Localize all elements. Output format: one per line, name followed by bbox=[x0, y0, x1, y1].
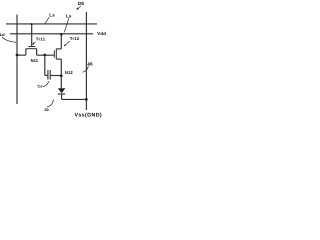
svg-text:Cs: Cs bbox=[37, 84, 42, 89]
label Ls leader (second) bbox=[64, 18, 69, 32]
svg-text:Ls: Ls bbox=[66, 14, 72, 19]
svg-text:DS: DS bbox=[78, 1, 84, 6]
svg-text:Vdd: Vdd bbox=[97, 31, 106, 36]
label Cs text bbox=[37, 84, 42, 89]
label Cs leader bbox=[43, 81, 49, 86]
node junction dot Tr12 drain on Vdd rail bbox=[60, 33, 63, 36]
svg-text:Ld: Ld bbox=[0, 32, 5, 37]
transistor Tr11 bbox=[26, 24, 37, 55]
label Ls text (second) bbox=[66, 14, 72, 19]
label Vdd text bbox=[97, 31, 106, 36]
transistor Tr12 bbox=[54, 34, 61, 60]
wire scan line Ls (horizontal rail 1) bbox=[6, 23, 97, 25]
label Tr11 arrow bbox=[32, 42, 36, 45]
svg-text:N11: N11 bbox=[31, 58, 39, 63]
capacitor Cs bbox=[45, 55, 62, 80]
label 46 leader bbox=[83, 66, 89, 73]
wire data line Ld (left vertical) bbox=[16, 15, 18, 105]
svg-text:Vss(GND): Vss(GND) bbox=[75, 113, 103, 119]
wire cathode supply line 46 (right vertical) bbox=[85, 12, 87, 110]
label Tr12 arrow bbox=[64, 41, 70, 46]
label Ld leader (left) bbox=[2, 37, 16, 42]
label Tr11 text bbox=[36, 36, 46, 41]
label 30 text bbox=[44, 108, 48, 112]
node junction dot N12 / Cs bbox=[60, 74, 63, 77]
label Vss(GND) text bbox=[75, 113, 103, 119]
node junction dot data line / Tr11 bbox=[16, 54, 19, 57]
label DS text bbox=[78, 1, 84, 6]
label N11 text bbox=[31, 58, 39, 63]
svg-text:30: 30 bbox=[44, 108, 48, 112]
label Ls text (first) bbox=[49, 12, 55, 17]
label DS arrow bbox=[76, 6, 81, 10]
svg-text:Tr11: Tr11 bbox=[36, 36, 46, 41]
diode OLED 30 bbox=[58, 88, 65, 99]
label Ld text bbox=[0, 32, 5, 37]
wire node N11 (Tr11 drain to Tr12 gate) bbox=[37, 54, 54, 56]
svg-text:Tr12: Tr12 bbox=[70, 36, 80, 41]
label N12 text bbox=[65, 70, 73, 75]
node junction dot Vss line bbox=[85, 98, 88, 101]
wire OLED cathode to Vss line bbox=[62, 98, 87, 100]
svg-text:Ls: Ls bbox=[49, 12, 55, 17]
label Tr12 text bbox=[70, 36, 80, 41]
label 46 text bbox=[87, 61, 93, 66]
wire Vdd rail (horizontal rail 2) bbox=[10, 33, 93, 35]
svg-text:46: 46 bbox=[87, 61, 93, 66]
label Ls leader (first) bbox=[45, 17, 49, 23]
svg-text:N12: N12 bbox=[65, 70, 73, 75]
node junction dot gate of Tr11 on scan line bbox=[31, 23, 33, 25]
wire Tr11 left source lead to data line bbox=[17, 54, 26, 56]
label 30 leader bbox=[47, 100, 54, 107]
wire Tr12 source down to OLED anode (node N12) bbox=[60, 59, 62, 88]
node junction dot N11 / Cs tap bbox=[43, 54, 46, 57]
